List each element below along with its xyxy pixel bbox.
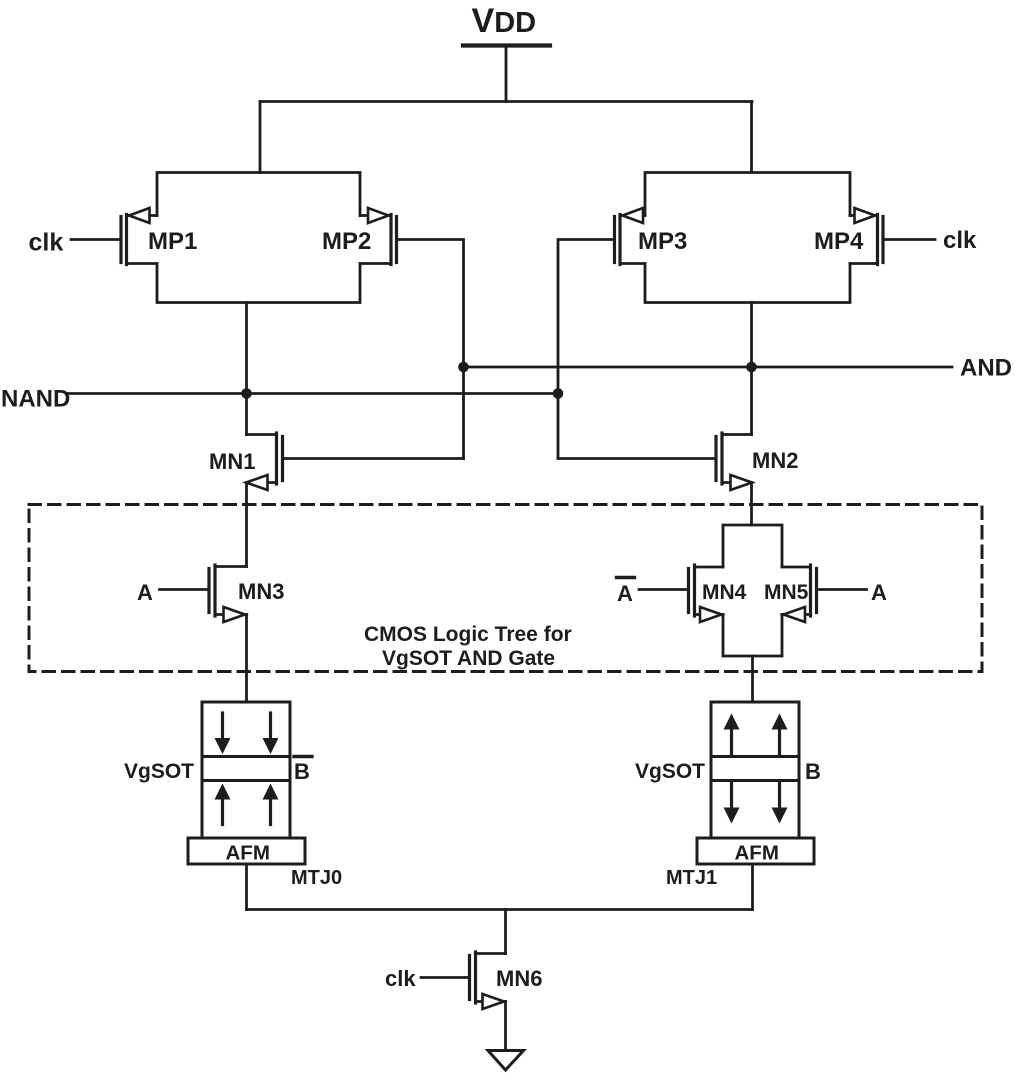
wire right pair supply drop (750, 102, 753, 173)
MTJ0 free layer down arrow left (215, 713, 231, 754)
device MTJ0 body (202, 702, 290, 838)
wire MN4/MN5 source rail to MTJ1 (751, 656, 754, 702)
svg-text:A: A (137, 580, 153, 605)
svg-text:B: B (805, 759, 821, 784)
device MTJ0 AFM electrode (188, 838, 305, 865)
wire MP1 MP2 source rail (157, 173, 360, 216)
pin label B-bar (MTJ0) (294, 757, 312, 785)
svg-text:MN4: MN4 (702, 581, 747, 604)
wire MP2 gate to AND node (399, 240, 464, 459)
ground (488, 1051, 524, 1071)
net AND wire (464, 366, 953, 369)
wire MN2 source to MN4/MN5 top rail (750, 483, 753, 526)
dashed box CMOS logic tree (29, 505, 982, 672)
svg-text:MTJ1: MTJ1 (666, 867, 717, 889)
svg-text:VgSOT AND Gate: VgSOT AND Gate (382, 647, 555, 670)
MTJ1 free layer up arrow left (724, 714, 740, 755)
wire Abar to MN4 gate (639, 588, 687, 591)
junction AND at right column (746, 362, 757, 373)
net NAND wire (68, 392, 558, 395)
MTJ0 pinned layer up arrow right (263, 784, 279, 825)
wire A to MN3 gate (160, 588, 208, 591)
wire MN2 gate to NAND column (558, 457, 714, 460)
svg-text:MP1: MP1 (148, 228, 197, 255)
wire MN4 MN5 source rail (723, 615, 782, 657)
wire NAND column (MP1/MP2 drains to MN1 drain) (245, 303, 248, 435)
MTJ1 pinned layer down arrow left (724, 783, 740, 824)
wire MN6 source to ground (504, 1002, 507, 1051)
svg-text:MN6: MN6 (496, 966, 542, 991)
transistor MP4 (850, 208, 883, 265)
wire left pair supply drop (259, 102, 262, 173)
wire AND column (MP3/MP4 drains to MN2 drain) (750, 303, 753, 435)
svg-text:clk: clk (943, 227, 977, 254)
svg-text:MN1: MN1 (209, 449, 255, 474)
transistor MN1 (246, 433, 283, 490)
svg-text:MP4: MP4 (814, 228, 864, 255)
junction AND at MP2 gate column (458, 362, 469, 373)
svg-text:MTJ0: MTJ0 (291, 867, 342, 889)
wire VDD stem (505, 46, 508, 102)
wire MP3 gate to NAND node (558, 240, 613, 459)
MTJ1 pinned layer down arrow right (772, 783, 788, 824)
device MTJ1 body (711, 702, 799, 838)
wire top rail (260, 100, 752, 103)
wire bottom rail to MN6 drain (504, 910, 507, 954)
wire MP1 MP2 drain rail (157, 264, 360, 303)
transistor MP2 (360, 208, 397, 265)
svg-text:A: A (617, 581, 633, 606)
wire MP3 MP4 source rail (645, 173, 850, 216)
wire bottom rail (247, 908, 753, 911)
svg-text:MN2: MN2 (752, 448, 798, 473)
wire MP4 gate to clk (885, 238, 935, 241)
svg-text:MN5: MN5 (764, 581, 809, 604)
svg-text:CMOS Logic Tree for: CMOS Logic Tree for (364, 623, 572, 646)
svg-text:VgSOT: VgSOT (124, 760, 194, 783)
transistor MN2 (716, 433, 752, 490)
wire MN3 source to MTJ0 (245, 615, 248, 703)
transistor MN6 (470, 952, 506, 1009)
transistor MN5 (782, 565, 817, 622)
transistor MP1 (121, 208, 157, 265)
transistor MP3 (615, 208, 646, 265)
svg-text:VDD: VDD (472, 2, 537, 40)
svg-text:A: A (871, 580, 887, 605)
junction NAND at MP3 gate column (553, 388, 564, 399)
wire MTJ0 AFM to bottom rail (245, 864, 248, 910)
svg-text:AFM: AFM (226, 842, 270, 865)
wire MTJ1 AFM to bottom rail (751, 864, 754, 910)
svg-text:MP2: MP2 (322, 228, 371, 255)
svg-text:VgSOT: VgSOT (635, 760, 705, 783)
pin label A-bar (MN4) (617, 578, 635, 607)
wire MP3 MP4 drain rail (645, 264, 850, 303)
wire MN1 source to MN3 drain (245, 483, 248, 567)
wire clk to MP1 gate (71, 238, 120, 241)
device MTJ1 AFM electrode (697, 838, 814, 865)
svg-text:MP3: MP3 (638, 228, 687, 255)
wire MN4 MN5 drain rail (723, 525, 782, 567)
wire MN5 gate to A (819, 588, 867, 591)
power symbol VDD bar (463, 43, 550, 47)
svg-text:MN3: MN3 (238, 579, 284, 604)
svg-text:NAND: NAND (1, 386, 70, 413)
wire MN1 gate to AND column (285, 457, 464, 460)
MTJ1 free layer up arrow right (772, 714, 788, 755)
transistor MN3 (209, 565, 247, 622)
svg-text:clk: clk (385, 966, 416, 991)
junction NAND at left column (241, 388, 252, 399)
svg-text:AFM: AFM (735, 842, 779, 865)
MTJ0 free layer down arrow right (263, 713, 279, 754)
svg-text:clk: clk (29, 229, 64, 257)
svg-text:AND: AND (960, 355, 1012, 382)
MTJ0 pinned layer up arrow left (215, 784, 231, 825)
transistor MN4 (689, 565, 724, 622)
svg-text:B: B (294, 759, 310, 784)
wire clk to MN6 gate (421, 976, 468, 979)
